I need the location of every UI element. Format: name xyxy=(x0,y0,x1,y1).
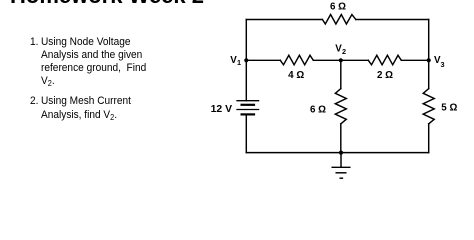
title (cut off at top): Homework Week 2 xyxy=(10,0,204,9)
wire: middle branch upper xyxy=(340,60,342,88)
svg-text:6 Ω: 6 Ω xyxy=(310,104,326,115)
wire: left rail lower xyxy=(245,114,247,152)
ground bar 1 xyxy=(332,166,350,168)
ground node dot xyxy=(339,151,343,155)
problem list: item 1 number xyxy=(30,36,38,49)
battery short plate 2 xyxy=(242,113,254,115)
node V3 dot xyxy=(427,58,431,62)
ground bar 2 xyxy=(336,172,346,174)
resistor R-top 6 ohm xyxy=(322,15,355,25)
wire: top right horizontal xyxy=(356,19,429,21)
svg-text:6 Ω: 6 Ω xyxy=(330,1,346,12)
svg-text:12 V: 12 V xyxy=(211,104,232,115)
svg-text:5 Ω: 5 Ω xyxy=(441,102,457,113)
battery short plate 1 xyxy=(242,104,254,106)
battery V1 12V: long plate 1 xyxy=(237,100,259,102)
wire: right rail upper xyxy=(428,20,430,89)
node V1 dot xyxy=(244,58,248,62)
svg-text:2: 2 xyxy=(342,47,346,56)
wire: middle row V1 to 4ohm xyxy=(246,59,280,61)
resistor 4 ohm xyxy=(280,55,313,65)
svg-text:3: 3 xyxy=(441,60,445,69)
svg-text:4 Ω: 4 Ω xyxy=(288,70,304,81)
wire: top left horizontal xyxy=(246,19,322,21)
resistor 5 ohm xyxy=(423,89,434,124)
svg-text:2 Ω: 2 Ω xyxy=(377,70,393,81)
ground bar 3 xyxy=(340,177,342,179)
ground stub xyxy=(340,153,342,168)
wire: V2 to 2ohm xyxy=(341,59,369,61)
wire: right rail lower xyxy=(428,124,430,153)
resistor 2 ohm xyxy=(368,55,401,65)
problem list: item 2 text xyxy=(41,95,131,123)
node V2 dot xyxy=(339,58,343,62)
battery long plate 2 xyxy=(237,109,259,111)
wire: bottom horizontal xyxy=(246,152,428,154)
problem list: item 1 text xyxy=(41,36,146,91)
problem list: item 2 number xyxy=(30,95,38,108)
svg-text:1: 1 xyxy=(237,58,241,67)
resistor 6 ohm middle xyxy=(335,89,346,124)
wire: left rail upper xyxy=(245,20,247,101)
wire: middle branch lower xyxy=(340,124,342,153)
wire: 2ohm to V3 xyxy=(401,59,428,61)
wire: 4ohm to V2 xyxy=(313,59,341,61)
